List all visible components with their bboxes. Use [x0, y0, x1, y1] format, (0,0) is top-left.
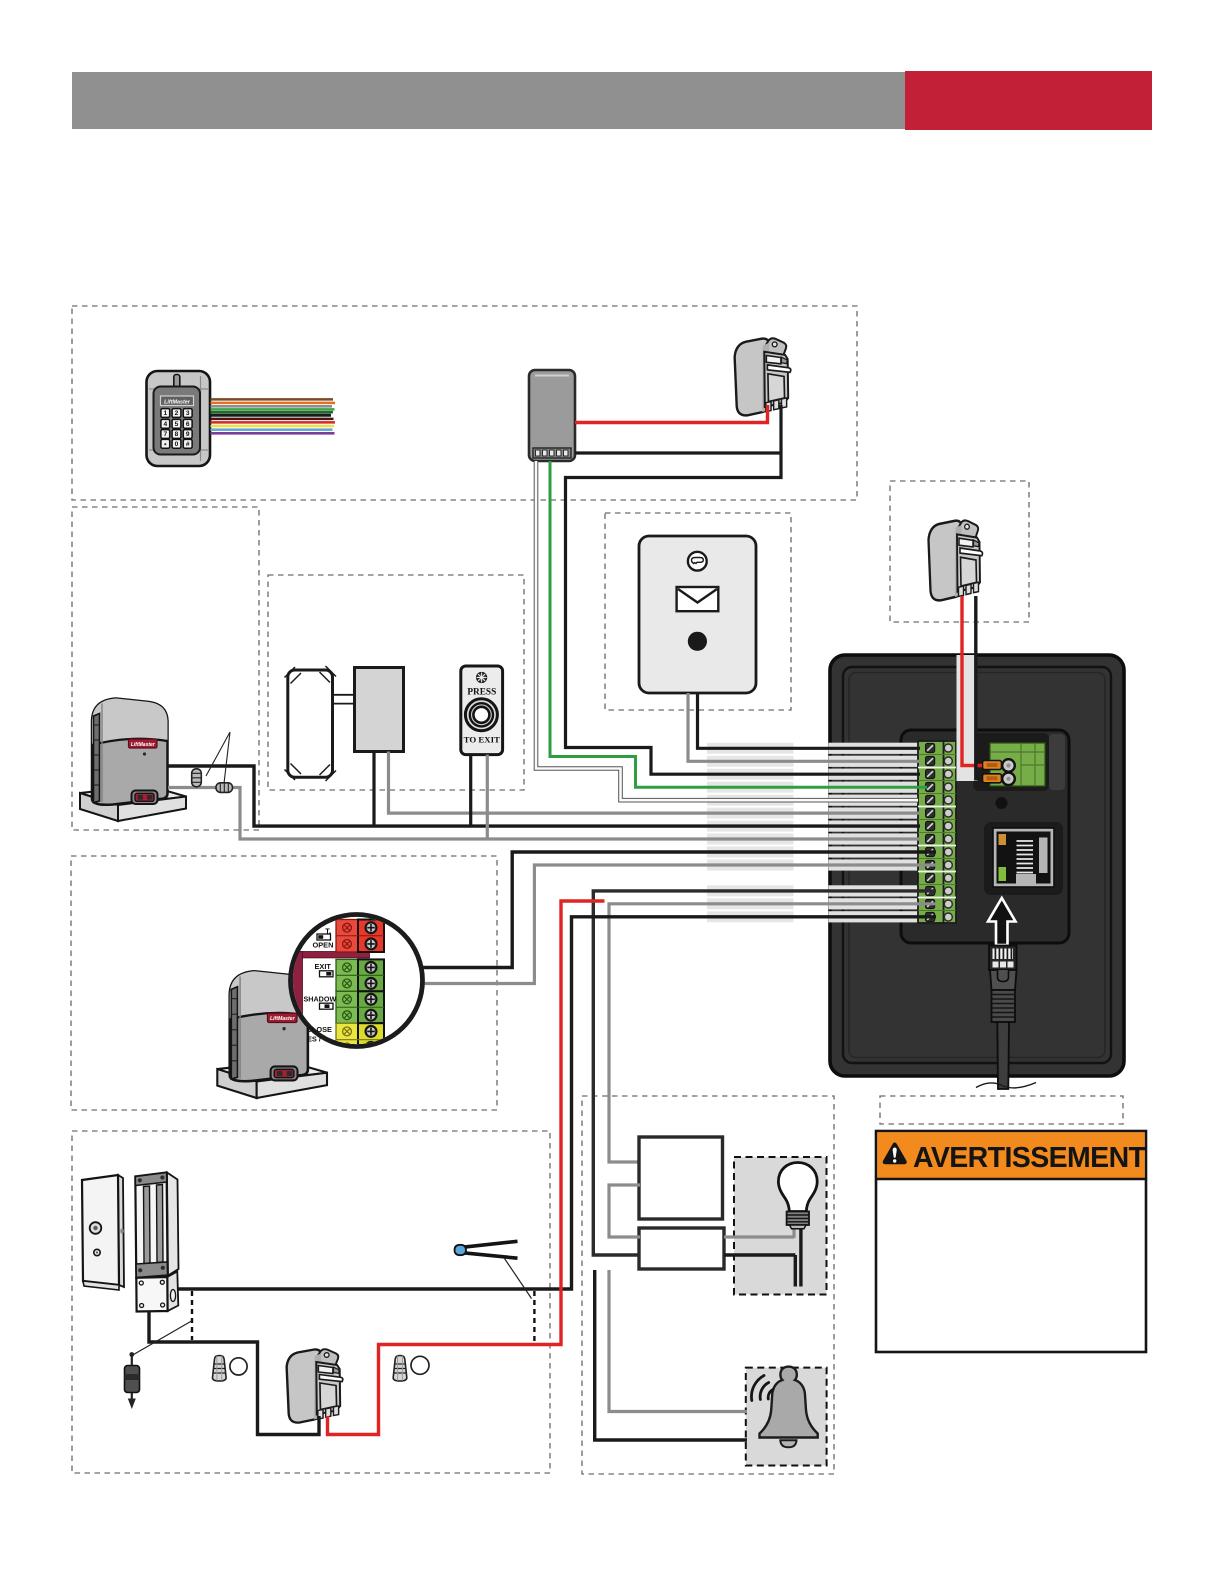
gate operator 2 [217, 971, 327, 1098]
svg-text:9: 9 [186, 431, 190, 438]
wire: postal plate black to row1 [698, 693, 921, 748]
wire: loop box black drop [372, 752, 375, 827]
bell zone box [746, 1368, 827, 1466]
svg-text:CLOSE: CLOSE [307, 1025, 333, 1034]
maglock armature plate [82, 1175, 124, 1290]
wire: row14 black to maglock [176, 917, 936, 1289]
wire: press button gray drop [486, 755, 489, 839]
RJ45 plug and cable [976, 946, 1036, 1090]
loop detector box [355, 668, 404, 752]
wire nut 1 [212, 1356, 226, 1382]
power input connector recess [973, 733, 1049, 791]
postal lock plate [639, 536, 756, 693]
wire: power supply green to row4 [550, 461, 927, 787]
bell [751, 1367, 817, 1448]
svg-text:8: 8 [175, 431, 179, 438]
inline connector on operator1 gray wire [216, 783, 233, 793]
svg-text:AVERTISSEMENT: AVERTISSEMENT [913, 1142, 1147, 1174]
svg-text:2: 2 [175, 410, 179, 417]
dashed zone: relay / bell [582, 1096, 834, 1474]
dashed zone: postal lock panel [605, 513, 791, 710]
svg-text:ES /: ES / [307, 1034, 321, 1043]
wire: press button black drop [469, 755, 472, 827]
transformer T3 [287, 1349, 343, 1422]
header red bar [905, 71, 1152, 130]
dashed zone: loop detector / exit button [268, 575, 524, 790]
callout circle 2 [411, 1356, 429, 1374]
relay box 2 [639, 1228, 724, 1269]
dashed jumper near maglock [191, 1291, 193, 1340]
callout circle 1 [230, 1358, 247, 1375]
maglock magnet body [135, 1173, 178, 1278]
svg-text:#: # [186, 441, 190, 448]
wire black from T2 [976, 596, 982, 779]
callout line from probe [505, 1259, 532, 1299]
intercom back panel body [830, 655, 1124, 1076]
callout line to ground rod [131, 1321, 192, 1356]
wire: row12 black to relay2 [593, 891, 936, 1255]
wire nut 2 [393, 1356, 407, 1382]
wire: relay2 gray to bulb [724, 1228, 794, 1238]
ground rod [125, 1352, 140, 1409]
keypad KPW250 [147, 371, 211, 466]
relay box 1 [639, 1137, 723, 1219]
main terminal block [918, 741, 956, 923]
zoom circle of operator terminal [291, 915, 423, 1047]
wire: maglock box black down [149, 1311, 319, 1435]
wire: gray to bell [609, 1270, 747, 1412]
svg-text:OPEN: OPEN [313, 941, 334, 950]
wire: power supply white to row5 [536, 461, 918, 800]
gate operator 1 [80, 699, 186, 822]
wire: row13 gray to relay1 [609, 904, 936, 1162]
cable sleeves at terminal [707, 743, 918, 923]
orange lever 1 [983, 761, 1002, 770]
svg-text:LiftMaster: LiftMaster [164, 399, 191, 405]
svg-text:6: 6 [186, 421, 190, 428]
wire: loop box gray to row6 [389, 752, 921, 814]
press-to-exit button [461, 666, 503, 755]
callout lines near operator1 [206, 732, 230, 784]
svg-text:7: 7 [163, 431, 167, 438]
wire: postal plate gray to row2 [688, 693, 920, 761]
wire: relay2 black to bulb [724, 1228, 801, 1287]
loop leads [333, 695, 355, 704]
wire: operator1 gray to row8 [168, 788, 920, 840]
dashed zone: transformer T2 [890, 481, 1029, 622]
transformer T2 [929, 520, 983, 600]
cable sleeve from T2 [957, 655, 978, 781]
probe tool [455, 1241, 518, 1258]
vehicle loop [285, 666, 337, 781]
svg-text:*: * [164, 443, 167, 450]
dashed zone: gate operator 1 [72, 507, 259, 830]
header gray bar [72, 72, 905, 129]
dashed zone: magnetic lock [72, 1131, 550, 1473]
bulb zone box [734, 1157, 827, 1295]
wire: T1 red to power supply [575, 405, 768, 423]
svg-text:3: 3 [186, 410, 190, 417]
svg-text:PRESS: PRESS [467, 687, 496, 697]
RJ45 jack [984, 822, 1063, 895]
wire: relay1 gray loop [609, 1185, 640, 1237]
insert arrow [988, 898, 1016, 945]
dashed jumper mid [533, 1291, 535, 1342]
wire: red riser [328, 901, 605, 1435]
light bulb [778, 1163, 817, 1229]
dashed zone: gate operator 2 [71, 856, 497, 1110]
svg-text:1: 1 [163, 410, 167, 417]
warning box AVERTISSEMENT [876, 1131, 1147, 1352]
wire: operator1 black to row7 [168, 766, 920, 826]
keypad keys [161, 409, 192, 450]
svg-text:0: 0 [175, 441, 179, 448]
svg-text:5: 5 [175, 421, 179, 428]
power supply module [529, 370, 575, 461]
keypad ribbon wires [211, 399, 336, 433]
intercom recess panel [901, 730, 1069, 943]
orange lever 2 [983, 774, 1002, 783]
svg-text:TO EXIT: TO EXIT [464, 735, 500, 745]
transformer T1 [735, 338, 791, 415]
wire red from T2 [962, 596, 982, 766]
power input connector [990, 743, 1045, 786]
dashed zone: keypad/power supply [72, 306, 857, 500]
dashed zone: small right box [880, 1096, 1123, 1124]
mounting hole [996, 797, 1008, 809]
wire: black to bell [595, 1270, 747, 1440]
wire: power supply black via T1 to row3 [566, 405, 921, 774]
wire: EXIT gray to row10 [384, 865, 936, 984]
svg-text:SHADOW: SHADOW [304, 995, 337, 1004]
inline connector on operator1 black wire [192, 769, 202, 787]
wire: EXIT black to row9 [384, 852, 936, 968]
maglock junction box [136, 1272, 178, 1312]
svg-text:4: 4 [163, 421, 167, 428]
svg-text:EXIT: EXIT [315, 962, 332, 971]
